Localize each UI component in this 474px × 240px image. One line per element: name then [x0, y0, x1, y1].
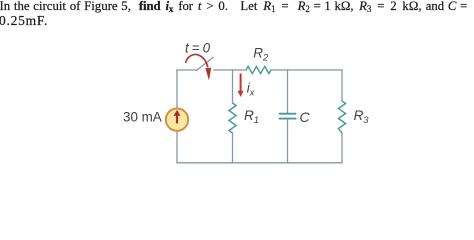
svg-text:ix: ix: [247, 81, 255, 98]
svg-text:R3: R3: [354, 108, 370, 125]
svg-text:R1: R1: [244, 108, 259, 125]
svg-text:C: C: [300, 109, 311, 125]
svg-text:R2: R2: [253, 46, 269, 63]
svg-text:30 mA: 30 mA: [123, 110, 162, 125]
svg-text:t = 0: t = 0: [185, 41, 211, 56]
